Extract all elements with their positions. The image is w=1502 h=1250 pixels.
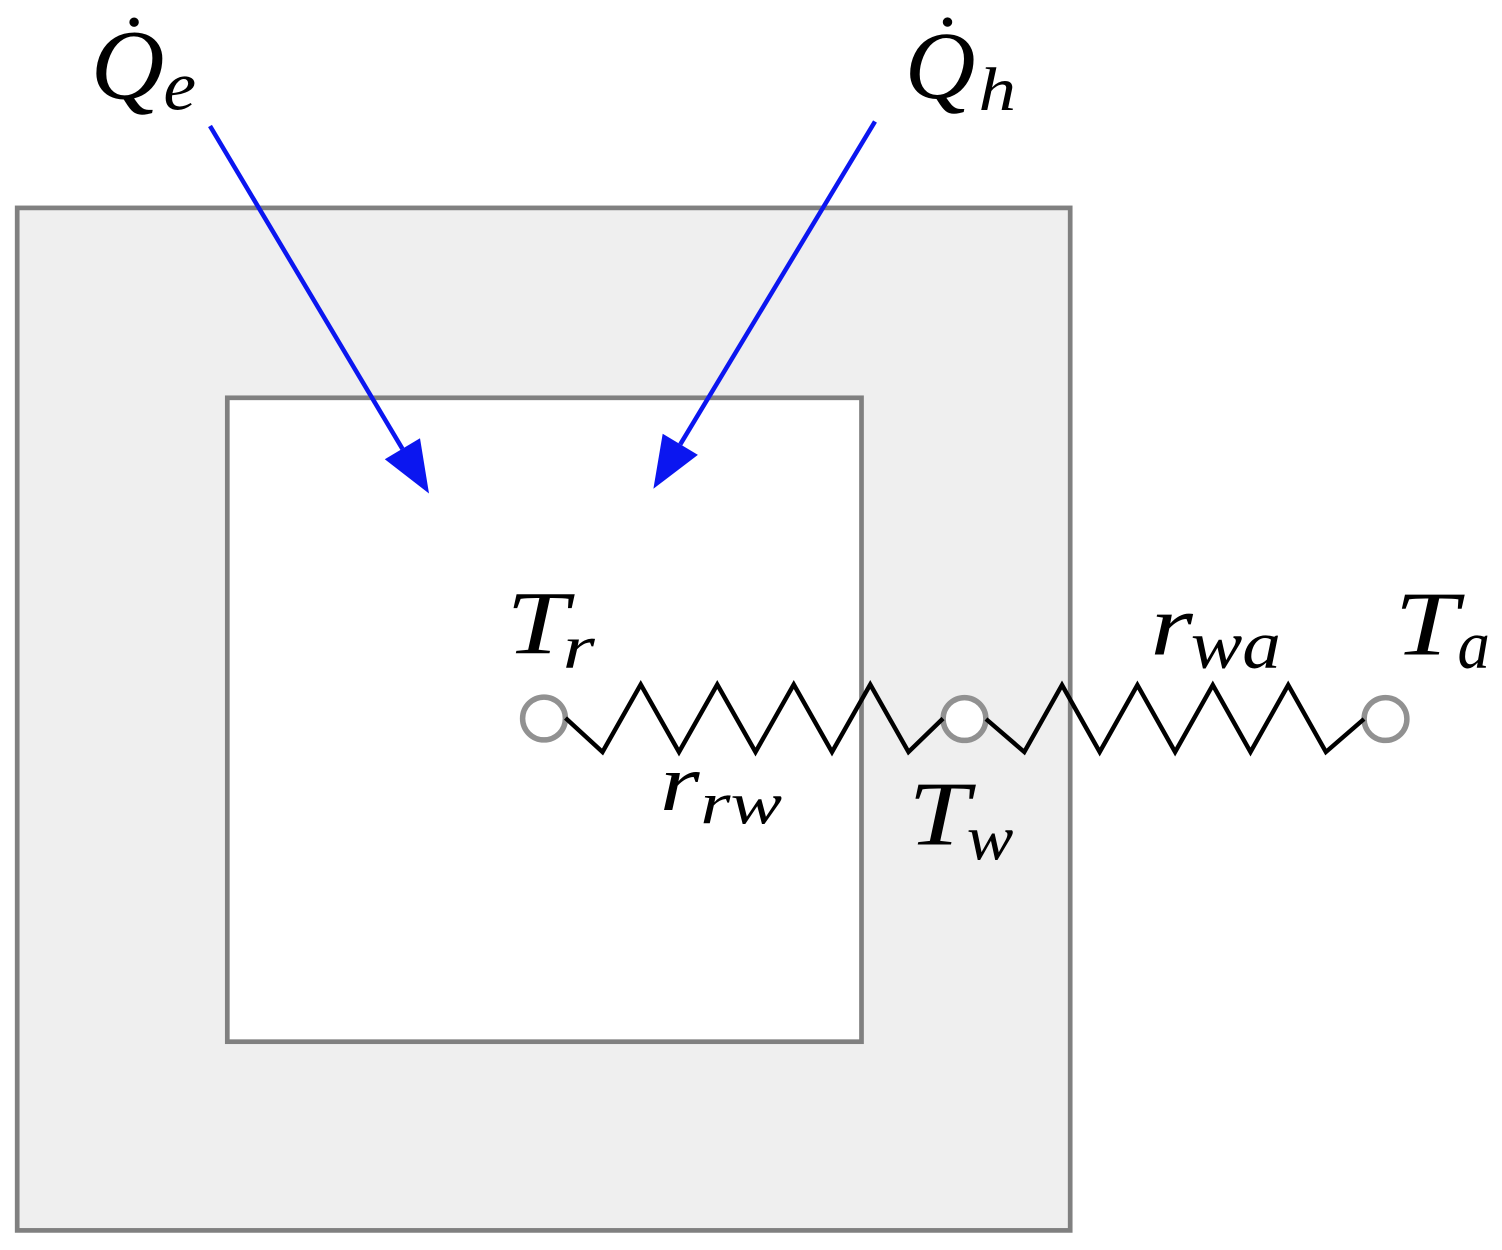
heat flow arrow Q_e head xyxy=(385,438,429,493)
resistor r_wa zigzag xyxy=(986,685,1364,752)
svg-text:w: w xyxy=(967,803,1014,874)
label T_r xyxy=(506,574,595,682)
heat flow arrow Q_e shaft xyxy=(210,126,402,449)
label Qdot_h xyxy=(905,12,1016,123)
svg-text:Q: Q xyxy=(905,12,976,119)
svg-text:r: r xyxy=(1150,578,1193,674)
node T_w circle xyxy=(943,698,986,741)
inner room rectangle xyxy=(227,398,861,1042)
label T_w xyxy=(908,763,1013,873)
label r_rw xyxy=(660,738,782,836)
svg-text:Q: Q xyxy=(91,9,164,120)
outer wall rectangle xyxy=(17,208,1070,1231)
node T_a circle xyxy=(1364,698,1407,741)
svg-text:h: h xyxy=(979,55,1017,123)
svg-text:wa: wa xyxy=(1191,607,1281,683)
label r_wa xyxy=(1150,578,1281,683)
label Qdot_e xyxy=(91,9,196,125)
svg-text:r: r xyxy=(660,738,701,827)
svg-text:T: T xyxy=(1394,574,1465,675)
node T_r circle xyxy=(523,697,566,740)
label T_a xyxy=(1394,574,1489,683)
svg-text:r: r xyxy=(563,613,596,681)
heat flow arrow Q_h shaft xyxy=(680,122,875,445)
svg-text:e: e xyxy=(163,48,196,125)
heat flow arrow Q_h head xyxy=(653,434,698,489)
svg-text:a: a xyxy=(1458,608,1490,683)
svg-text:rw: rw xyxy=(700,770,782,837)
resistor r_rw zigzag xyxy=(566,685,944,753)
